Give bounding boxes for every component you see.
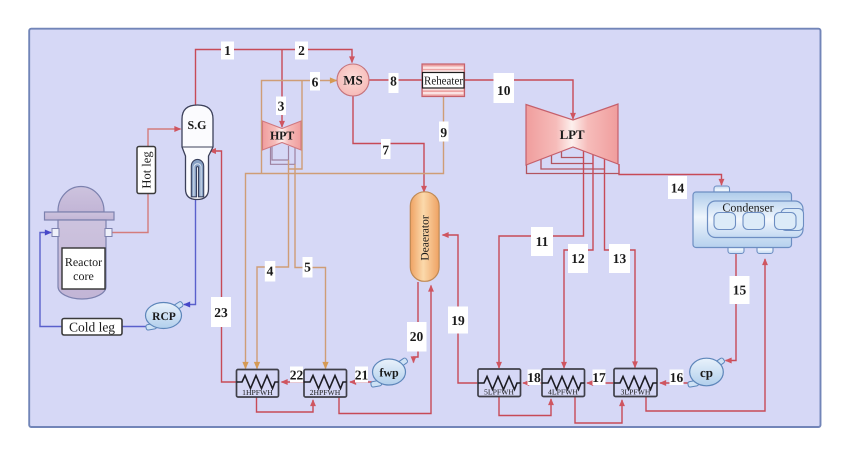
svg-text:17: 17: [592, 370, 606, 385]
svg-text:10: 10: [497, 83, 511, 98]
svg-text:2HPFWH: 2HPFWH: [310, 388, 341, 397]
svg-text:1HPFWH: 1HPFWH: [242, 388, 273, 397]
node label 7: [381, 139, 391, 159]
svg-text:MS: MS: [343, 73, 363, 88]
turbine HPT: [263, 121, 302, 150]
node label 15: [730, 276, 750, 304]
hot leg label box: [137, 147, 156, 194]
node label 1: [221, 42, 234, 60]
condenser: [693, 186, 804, 254]
node label 22: [290, 367, 304, 383]
svg-text:1: 1: [224, 43, 231, 58]
wire: S.G steam main line 1-2: [196, 50, 353, 106]
node label 9: [439, 122, 449, 142]
svg-text:fwp: fwp: [379, 366, 399, 380]
wire: LPT underside loop 1: [562, 152, 584, 158]
svg-text:RCP: RCP: [152, 311, 176, 323]
svg-text:cp: cp: [700, 365, 713, 380]
svg-text:12: 12: [571, 251, 585, 266]
wire: drain 5LPFWH to 4LPFWH: [499, 396, 551, 416]
moisture separator MS: [337, 64, 369, 96]
pump RCP: [146, 301, 184, 330]
svg-text:21: 21: [355, 368, 369, 383]
wire: line 14 LPT exhaust to condenser: [619, 164, 722, 185]
cold leg label box: [62, 319, 122, 336]
svg-text:Deaerator: Deaerator: [419, 215, 431, 260]
svg-text:3: 3: [278, 99, 285, 114]
node label 11: [531, 227, 553, 256]
svg-text:7: 7: [382, 143, 389, 158]
node label 2: [295, 42, 308, 60]
heater 5LPFWH: [478, 369, 521, 397]
wire: hot leg reactor to S.G: [112, 129, 181, 233]
node label 3: [276, 97, 286, 116]
node label 23: [211, 297, 231, 327]
heater 1HPFWH: [237, 370, 279, 398]
wire: line 6 right leg: [289, 81, 303, 170]
svg-text:15: 15: [733, 283, 747, 298]
svg-text:S.G: S.G: [187, 118, 206, 132]
svg-text:Hot leg: Hot leg: [140, 151, 154, 189]
svg-text:4LPFWH: 4LPFWH: [548, 388, 578, 397]
svg-text:3LPFWH: 3LPFWH: [621, 388, 651, 397]
wire: HPT outer exhaust U: [271, 147, 296, 164]
wire: line 16 cp to 3LPFWH: [660, 382, 690, 384]
wire: drain 1HPFWH to 2HPFWH: [257, 397, 314, 412]
svg-text:13: 13: [613, 251, 627, 266]
wire: line 21 fwp to 2HPFWH: [350, 381, 372, 383]
svg-text:18: 18: [527, 370, 541, 385]
svg-text:11: 11: [536, 234, 549, 249]
svg-text:9: 9: [440, 125, 447, 140]
node label 5: [303, 257, 313, 278]
wire: line 9 reheater drain: [246, 97, 444, 369]
node label 21: [355, 367, 369, 383]
wire: line 22: [282, 381, 305, 383]
node label 12: [568, 244, 588, 273]
pump fwp: [371, 357, 409, 387]
svg-text:2: 2: [298, 43, 305, 58]
svg-text:19: 19: [451, 313, 465, 328]
wire: line 11 to 5LPFWH: [499, 151, 584, 368]
wire: line 10 Reheater to LPT: [465, 80, 574, 119]
wire: line 8 MS to Reheater: [369, 79, 422, 81]
node label 19: [448, 307, 468, 334]
wire: line 15 condenser to cp: [726, 253, 737, 361]
svg-text:Reactor: Reactor: [65, 255, 102, 269]
svg-text:16: 16: [670, 370, 684, 385]
node label 18: [527, 370, 541, 386]
wire: line 13 to 3LPFWH: [605, 155, 636, 368]
wire: LPT underside loop 3: [541, 160, 605, 170]
wire: line 17: [587, 382, 614, 384]
wire: line 23 1HPFWH to S.G: [210, 151, 237, 382]
steam generator S.G: [182, 105, 213, 200]
wire: line 18: [523, 382, 542, 384]
wire: LPT underside base loop: [527, 165, 620, 174]
svg-text:20: 20: [410, 329, 424, 344]
svg-text:core: core: [73, 269, 94, 283]
reactor core label box: [62, 248, 105, 289]
wire: drain 3LPFWH to condenser: [646, 259, 765, 411]
svg-text:4: 4: [267, 264, 274, 279]
wire: blue cold leg RCP to reactor: [40, 233, 150, 327]
svg-text:Reheater: Reheater: [424, 74, 463, 88]
node label 20: [407, 322, 427, 352]
wire: line 3 branch to HPT: [281, 50, 283, 128]
node label 10: [494, 73, 515, 103]
svg-text:22: 22: [290, 368, 304, 383]
svg-text:8: 8: [390, 74, 397, 89]
deaerator: [410, 192, 439, 281]
wire: HPT inner exhaust U: [272, 146, 289, 161]
svg-text:LPT: LPT: [560, 127, 585, 142]
reheater: [422, 64, 465, 97]
wire: line 4 HPT extraction to 1HPFWH: [257, 160, 289, 369]
wire: drain 2HPFWH to deaerator: [339, 286, 431, 414]
wire: blue S.G to RCP: [184, 199, 196, 305]
node label 17: [592, 370, 606, 386]
svg-text:5: 5: [304, 260, 311, 275]
wire: LPT underside loop 2: [552, 156, 594, 164]
heater 2HPFWH: [304, 370, 347, 398]
wire: line 7 MS drain to deaerator: [353, 96, 424, 192]
svg-text:Cold leg: Cold leg: [69, 320, 115, 335]
node label 14: [668, 176, 687, 199]
wire: line 20 deaerator to fwp: [414, 282, 419, 363]
svg-text:HPT: HPT: [270, 129, 294, 143]
node label 4: [265, 261, 276, 282]
node label 16: [670, 370, 684, 386]
reactor vessel: [45, 187, 115, 299]
wire: line 5 HPT extraction to 2HPFWH: [295, 164, 326, 368]
heater 3LPFWH: [614, 369, 657, 397]
wire: line 12 to 4LPFWH: [564, 153, 593, 368]
heater 4LPFWH: [542, 369, 585, 397]
pump cp: [688, 357, 726, 387]
svg-text:5LPFWH: 5LPFWH: [484, 388, 514, 397]
svg-text:14: 14: [671, 181, 685, 196]
turbine LPT: [526, 104, 618, 165]
wire: line 6 loop around HPT to MS: [262, 81, 337, 174]
node label 8: [389, 73, 399, 93]
node label 13: [609, 244, 630, 273]
svg-text:23: 23: [214, 305, 228, 320]
wire: drain 4LPFWH to 3LPFWH: [575, 396, 622, 423]
svg-text:6: 6: [312, 75, 319, 90]
svg-text:Condenser: Condenser: [722, 201, 773, 215]
node label 6: [310, 72, 320, 91]
wire: line 19 5LPFWH to deaerator: [443, 235, 479, 383]
